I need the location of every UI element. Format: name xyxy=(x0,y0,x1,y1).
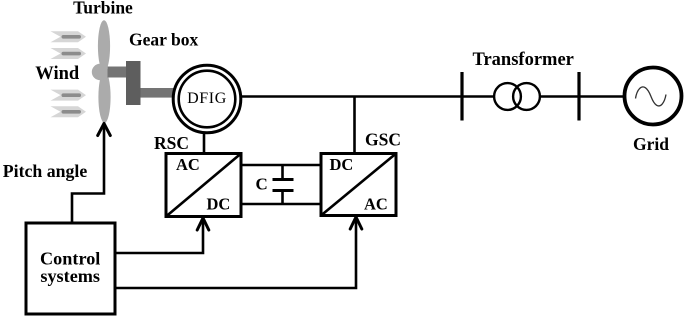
bus bar 2 xyxy=(577,72,580,121)
svg-text:DC: DC xyxy=(207,195,231,214)
turbine hub xyxy=(92,64,108,80)
svg-text:Transformer: Transformer xyxy=(473,50,574,70)
gearbox low-speed shaft xyxy=(108,67,127,78)
svg-text:Wind: Wind xyxy=(35,64,80,84)
wind arrow 1 xyxy=(51,31,87,42)
turbine blade bottom xyxy=(98,71,110,123)
svg-text:systems: systems xyxy=(40,266,100,286)
wire DFIG to RSC xyxy=(203,132,206,153)
svg-text:C: C xyxy=(256,175,268,194)
wind arrow 3 xyxy=(51,90,87,101)
generator DFIG xyxy=(173,65,241,133)
svg-text:DC: DC xyxy=(330,155,354,174)
svg-text:Gear box: Gear box xyxy=(129,30,198,50)
wire control to RSC xyxy=(115,218,209,253)
svg-text:Pitch angle: Pitch angle xyxy=(3,161,88,181)
wire DC link bottom xyxy=(242,203,321,206)
wind arrow 2 xyxy=(51,48,87,59)
capacitor C xyxy=(273,165,294,204)
wire DFIG to grid xyxy=(241,95,625,98)
converter GSC xyxy=(321,154,396,216)
gearbox high-speed shaft xyxy=(141,88,174,98)
control systems box xyxy=(26,223,115,314)
wire DC link top xyxy=(242,164,321,167)
svg-text:AC: AC xyxy=(176,155,200,174)
svg-text:GSC: GSC xyxy=(365,130,401,150)
svg-text:RSC: RSC xyxy=(154,133,189,153)
transformer T1 xyxy=(494,83,540,110)
grid source xyxy=(625,68,682,125)
svg-text:Grid: Grid xyxy=(633,134,669,154)
svg-text:Turbine: Turbine xyxy=(73,0,133,18)
wire pitch control xyxy=(72,124,110,224)
wire grid bus to GSC xyxy=(353,97,356,154)
svg-text:AC: AC xyxy=(364,195,388,214)
turbine blade top xyxy=(98,20,110,72)
gearbox body xyxy=(126,61,141,105)
svg-text:DFIG: DFIG xyxy=(187,90,227,107)
converter RSC xyxy=(166,154,241,217)
bus bar 1 xyxy=(460,72,463,121)
wind arrow 4 xyxy=(51,106,87,117)
wire control to GSC xyxy=(115,217,362,288)
